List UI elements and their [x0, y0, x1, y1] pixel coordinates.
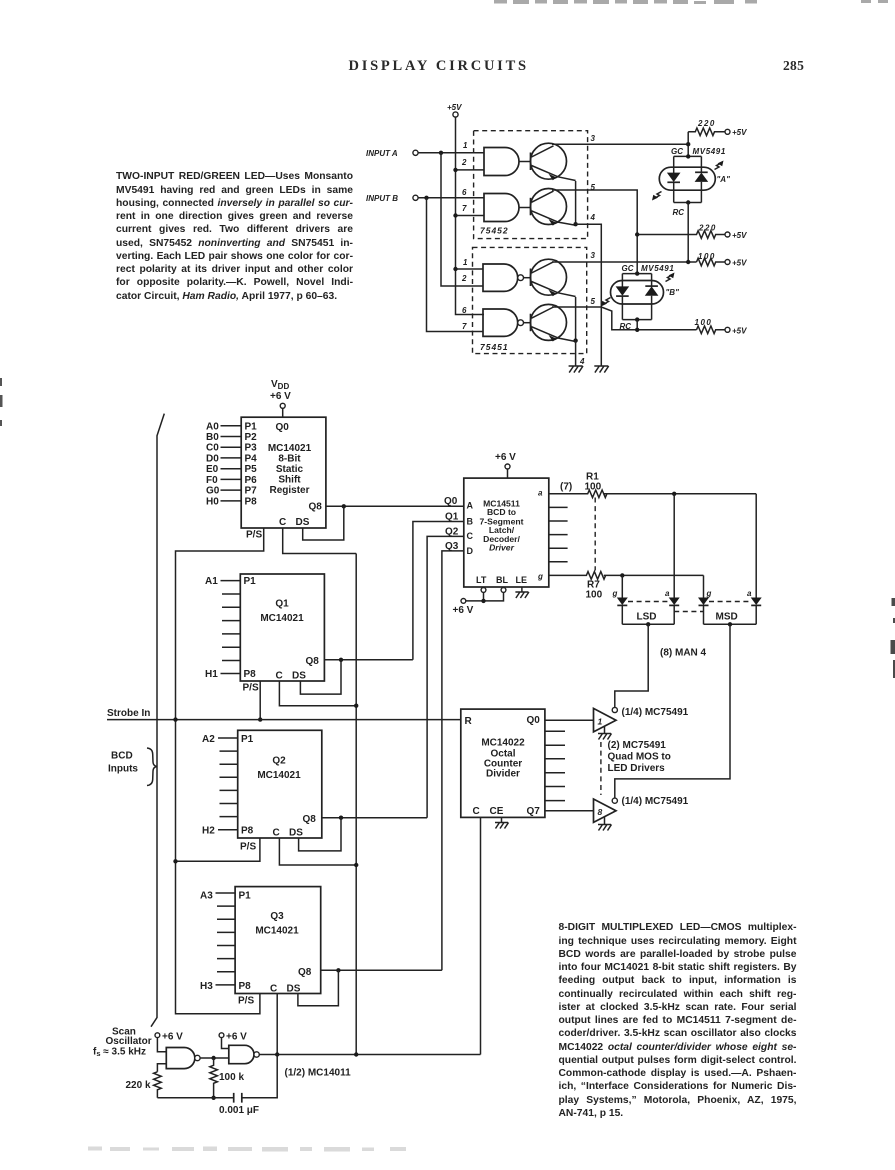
wire C of MC14022 down to oscillator	[480, 817, 482, 1054]
svg-text:P/S: P/S	[240, 842, 256, 853]
capacitor 0.001uF plates	[219, 1093, 259, 1116]
svg-text:RC: RC	[673, 208, 685, 217]
wire segment g to displays	[604, 574, 704, 576]
wire NAND1 out to NAND2	[200, 1058, 229, 1061]
svg-text:DS: DS	[289, 828, 303, 839]
junction g/LSD	[620, 573, 624, 577]
LSD common cathode	[622, 612, 674, 627]
wire C of Q1 to clock bus	[279, 681, 356, 706]
svg-text:LSD: LSD	[637, 612, 657, 623]
junction INPUT A	[439, 151, 443, 155]
transistor Q1	[531, 143, 576, 180]
ground 75451	[569, 366, 583, 373]
output stub f	[549, 561, 568, 563]
register Q1 MC14021	[240, 574, 324, 682]
junction Q8 feedback Q3	[336, 968, 340, 972]
svg-text:75452: 75452	[480, 226, 509, 236]
register Q0 MC14021	[241, 417, 326, 528]
wire P/S of Q2 to strobe bus	[176, 838, 260, 861]
resistor R7 100	[549, 572, 606, 601]
svg-text:MV5491: MV5491	[641, 264, 674, 273]
junction osc/C Q3	[275, 1052, 279, 1056]
svg-text:100: 100	[698, 252, 716, 261]
CE ground	[495, 817, 509, 828]
wire LED A RC down to 100 ohm line	[687, 203, 689, 263]
wire gate U2a output to Q3 base	[524, 277, 531, 279]
svg-text:C: C	[473, 806, 480, 817]
wire +5V rail down to gate inputs	[456, 117, 485, 314]
svg-text:GC: GC	[671, 147, 683, 156]
svg-text:C: C	[270, 984, 277, 995]
input stub 2 Q3	[217, 905, 235, 907]
svg-text:MSD: MSD	[716, 612, 738, 623]
wire Q7 to driver 8	[545, 810, 594, 812]
svg-text:F0: F0	[206, 475, 218, 486]
wire Q8 to DS feedback Q1	[300, 660, 341, 694]
NAND gate 2 MC14011	[229, 1045, 260, 1063]
svg-text:BL: BL	[496, 575, 508, 585]
input H2	[202, 826, 238, 837]
dashed link LSD-MSD	[674, 611, 703, 613]
svg-text:C: C	[279, 517, 286, 528]
svg-text:VDD: VDD	[271, 379, 289, 391]
LED segment diode g LSD	[612, 589, 628, 624]
svg-text:7: 7	[462, 204, 467, 213]
scan artifact right edge	[891, 598, 895, 678]
input stub 3 Q2	[220, 763, 238, 765]
driver buffer 8 MC75491	[594, 798, 618, 822]
junction RC/wire3	[686, 260, 690, 264]
input D0	[206, 453, 241, 464]
svg-text:Q0: Q0	[444, 496, 458, 507]
light arrow LED B lower	[603, 298, 611, 305]
MSD common cathode	[704, 612, 757, 627]
wire a down to MSD segment	[755, 494, 757, 598]
svg-text:(8) MAN 4: (8) MAN 4	[660, 648, 707, 659]
svg-text:Q0: Q0	[276, 422, 290, 433]
ground 75452	[594, 366, 608, 373]
LED pair MV5491 "A"	[659, 147, 730, 217]
input stub 6 Q1	[222, 646, 240, 648]
wire LSD cathode to driver 1	[615, 624, 648, 707]
label BCD Inputs	[108, 751, 138, 775]
svg-text:5: 5	[591, 183, 596, 192]
svg-text:DS: DS	[292, 671, 306, 682]
node INPUT A	[366, 149, 418, 158]
wire Q8 of Q1 right	[324, 659, 413, 661]
wire Q1 output up to MC14511 pin B	[413, 522, 464, 660]
NAND gate U2a	[483, 264, 523, 291]
svg-text:fs ≈ 3.5 kHz: fs ≈ 3.5 kHz	[93, 1047, 146, 1059]
wire VDD to register Q0	[282, 408, 284, 417]
svg-text:CE: CE	[490, 806, 504, 817]
svg-text:RC: RC	[620, 322, 632, 331]
svg-text:100: 100	[585, 482, 602, 493]
resistor 100k	[210, 1058, 245, 1098]
svg-text:H3: H3	[200, 981, 213, 992]
wire P/S of Q1 to strobe line	[259, 681, 261, 720]
input stub 3 Q3	[217, 918, 235, 920]
svg-text:LE: LE	[516, 575, 528, 585]
LT terminal circle	[481, 587, 486, 592]
svg-text:Q8: Q8	[303, 814, 317, 825]
wire 5 output of 75451 with jog to LED B RC	[552, 307, 697, 330]
svg-text:Register: Register	[269, 485, 309, 496]
strobe line	[107, 719, 461, 721]
arrowhead LED B upper	[669, 273, 675, 279]
light arrow LED A lower	[654, 192, 662, 199]
IC 75452 dashed outline	[474, 131, 588, 239]
svg-text:8: 8	[598, 807, 603, 817]
driver buffer 1 MC75491	[594, 707, 618, 732]
feedback line with capacitor	[157, 1055, 277, 1098]
+5V supply terminal	[447, 103, 462, 117]
svg-text:6: 6	[462, 188, 467, 197]
wire C of Q3 down to oscillator	[276, 994, 278, 1055]
wire +6V to NAND2 input	[222, 1038, 229, 1049]
scan oscillator +6V terminal 1	[155, 1032, 183, 1043]
input stub 7 Q1	[222, 660, 240, 662]
output stub c	[549, 520, 568, 522]
svg-text:Q7: Q7	[527, 806, 541, 817]
svg-text:INPUT B: INPUT B	[366, 194, 398, 203]
wire Q3 output up to MC14511 pin D	[442, 551, 464, 970]
wire +6V to MC14511	[507, 469, 509, 478]
junction Q8 feedback Q0	[342, 504, 346, 508]
svg-text:Divider: Divider	[486, 769, 520, 780]
svg-text:(1/4) MC75491: (1/4) MC75491	[622, 796, 689, 807]
junction 100k tap	[211, 1056, 215, 1060]
clock bus vertical	[355, 554, 357, 1055]
svg-text:C0: C0	[206, 443, 219, 454]
scan oscillator +6V terminal 2	[219, 1032, 247, 1043]
svg-text:1: 1	[463, 141, 468, 150]
junction emitters 75451	[573, 338, 577, 342]
svg-text:Shift: Shift	[278, 474, 301, 485]
register Q3 MC14021	[235, 887, 321, 995]
brace BCD inputs	[147, 748, 157, 786]
input B0	[206, 432, 241, 443]
svg-text:C: C	[273, 828, 280, 839]
output stub d	[549, 534, 568, 536]
wire Q8 of Q0 to MC14511 pin A	[326, 505, 464, 507]
dashed R2-R6 indicator	[594, 498, 596, 571]
svg-text:H1: H1	[205, 669, 218, 680]
wire C of Q0 to clock bus	[283, 528, 357, 554]
junction +5V/pin1 U2a	[453, 267, 457, 271]
light arrow LED B upper	[666, 275, 674, 282]
input stub 4 Q3	[217, 931, 235, 933]
junction +5V/pin7	[453, 213, 457, 217]
svg-text:2: 2	[461, 158, 467, 167]
svg-text:100 k: 100 k	[219, 1072, 244, 1083]
svg-text:LED Drivers: LED Drivers	[608, 763, 666, 774]
node INPUT B	[366, 194, 418, 203]
wire 4 of 75451 to ground	[575, 341, 577, 366]
input stub 4 Q2	[220, 776, 238, 778]
output stub b	[549, 506, 568, 508]
svg-text:C: C	[276, 671, 283, 682]
svg-text:BCD: BCD	[111, 751, 133, 762]
input stub 6 Q2	[220, 803, 238, 805]
svg-text:A: A	[467, 501, 474, 511]
svg-text:INPUT A: INPUT A	[366, 149, 398, 158]
junction C Q2/clock bus	[354, 863, 358, 867]
IC MC14022 counter	[461, 709, 545, 817]
svg-text:4: 4	[579, 357, 585, 366]
wire 3 output of 75452	[552, 143, 688, 145]
wire gate U1b output to Q2 base	[519, 207, 531, 209]
wire 4 of 75452 to ground	[576, 224, 602, 366]
LED segment diode a MSD	[747, 589, 762, 624]
svg-text:DS: DS	[296, 517, 310, 528]
wire 5 output of 75452 to LED B anode column	[552, 190, 637, 274]
svg-text:Oscillator: Oscillator	[106, 1036, 152, 1047]
svg-text:+6 V: +6 V	[453, 605, 474, 616]
dashed segment link LSD	[628, 601, 668, 603]
svg-text:(7): (7)	[560, 482, 572, 493]
input A3	[200, 891, 235, 902]
input stub 2 Q2	[220, 750, 238, 752]
input F0	[206, 475, 241, 486]
wire Q8 to DS feedback Q3	[298, 970, 339, 1005]
svg-text:P1: P1	[245, 421, 258, 432]
svg-text:4: 4	[590, 213, 596, 222]
svg-text:5: 5	[591, 297, 596, 306]
svg-text:1: 1	[463, 258, 468, 267]
wire INPUT B to pin7 of U2b	[427, 198, 484, 332]
svg-text:P8: P8	[239, 981, 252, 992]
wire gate U1a output to Q1 base	[519, 161, 531, 163]
svg-text:+5V: +5V	[732, 231, 747, 240]
label Scan Oscillator	[93, 1027, 152, 1059]
wire +6V to LT and BL	[466, 592, 504, 601]
input C0	[206, 443, 241, 454]
input A2	[202, 734, 238, 745]
wire Q2 output up to MC14511 pin C	[427, 536, 464, 817]
svg-text:Inputs: Inputs	[108, 764, 138, 775]
junction Q8 feedback Q2	[339, 816, 343, 820]
svg-text:MC14022: MC14022	[481, 738, 525, 749]
svg-text:6: 6	[462, 306, 467, 315]
svg-text:8-Bit: 8-Bit	[278, 453, 301, 464]
arrowhead LED A upper	[718, 161, 724, 167]
input A0	[206, 421, 241, 432]
counter stub Q1	[545, 730, 565, 732]
svg-text:(1/4) MC75491: (1/4) MC75491	[622, 707, 689, 718]
svg-text:P1: P1	[241, 734, 254, 745]
resistor 220k	[126, 1072, 162, 1098]
svg-text:MC14021: MC14021	[268, 443, 312, 454]
svg-text:MC14021: MC14021	[257, 770, 301, 781]
svg-text:a: a	[747, 589, 752, 598]
svg-text:75451: 75451	[480, 342, 509, 352]
wire a down to LSD segment	[673, 494, 675, 598]
junction Q8 feedback Q1	[339, 658, 343, 662]
svg-text:C: C	[467, 531, 474, 541]
wire +5V to pin7 gate U1b	[456, 215, 485, 217]
wire INPUT A to pin2 of U2a	[441, 153, 483, 286]
svg-text:Q2: Q2	[272, 756, 286, 767]
NAND gate U2b	[483, 309, 523, 336]
wire P/S of Q0 to strobe bus	[176, 528, 264, 1014]
wire Q8 of Q3 right	[321, 969, 442, 971]
junction 220/LED B GC column	[635, 232, 639, 236]
input G0	[206, 486, 241, 497]
input stub 3 Q1	[222, 606, 240, 608]
dashed segment link MSD	[709, 601, 750, 603]
wire Q8 to DS feedback Q2	[299, 818, 341, 851]
transistor Q4	[531, 304, 576, 341]
svg-text:A1: A1	[205, 576, 218, 587]
svg-text:P/S: P/S	[238, 996, 254, 1007]
junction P/S Q1/strobe	[258, 717, 262, 721]
counter stub Q5	[545, 786, 565, 788]
LE ground	[515, 587, 529, 598]
svg-text:+6 V: +6 V	[270, 391, 291, 402]
svg-text:(1/2) MC14011: (1/2) MC14011	[285, 1068, 352, 1079]
svg-text:1: 1	[598, 717, 603, 727]
wire INPUT B to pin6	[418, 197, 484, 199]
arrowhead LED A lower	[652, 195, 658, 201]
counter stub Q6	[545, 800, 565, 802]
svg-text:A2: A2	[202, 734, 215, 745]
header title	[349, 58, 529, 75]
wire 3 output of 75451 to 100 ohm and LED A RC	[552, 261, 697, 263]
input stub 5 Q1	[222, 633, 240, 635]
wire +5V to pin2 gate U1a	[456, 169, 485, 171]
wire NAND1 input 2 to 220k	[157, 1064, 166, 1072]
svg-text:100: 100	[695, 318, 713, 327]
svg-text:P6: P6	[245, 475, 258, 486]
input H1	[205, 669, 240, 680]
svg-text:+6 V: +6 V	[495, 452, 516, 463]
NAND gate 1 MC14011	[166, 1048, 200, 1069]
junction a/LSD	[672, 492, 676, 496]
svg-text:220: 220	[698, 224, 717, 233]
junction strobe/PS bus	[173, 717, 177, 721]
arrowhead LED B lower	[601, 301, 607, 307]
IC 75451 dashed outline	[473, 247, 587, 353]
resistor 220 (second, to LED B GC)	[637, 224, 747, 241]
paragraph: 8-digit multiplexed LED description	[559, 921, 797, 1120]
svg-text:Q2: Q2	[445, 527, 459, 538]
svg-text:7: 7	[462, 322, 467, 331]
svg-text:"B": "B"	[666, 288, 680, 297]
left continuation bus	[151, 414, 164, 1027]
wire C of Q2 to clock bus	[279, 838, 356, 865]
svg-text:100: 100	[586, 590, 603, 601]
input H0	[206, 496, 241, 507]
svg-text:B0: B0	[206, 432, 219, 443]
svg-text:H0: H0	[206, 496, 219, 507]
page number 285	[783, 58, 804, 74]
counter stub Q4	[545, 772, 565, 774]
svg-text:Quad MOS to: Quad MOS to	[608, 752, 671, 763]
transistor Q2	[531, 189, 576, 226]
wire Q8 of Q2 right	[322, 817, 427, 819]
paragraph: two-input red/green LED description	[116, 170, 353, 303]
svg-text:P8: P8	[245, 496, 258, 507]
svg-text:H2: H2	[202, 826, 215, 837]
LED segment diode g MSD	[698, 589, 712, 624]
dashed drivers indicator	[600, 742, 602, 795]
svg-text:MV5491: MV5491	[693, 147, 726, 156]
svg-text:A0: A0	[206, 421, 219, 432]
junction +5V/pin2	[453, 168, 457, 172]
svg-text:220: 220	[697, 119, 716, 128]
input stub 5 Q2	[220, 789, 238, 791]
svg-text:a: a	[665, 589, 670, 598]
svg-text:P3: P3	[245, 443, 258, 454]
junction C Q1/clock bus	[354, 704, 358, 708]
junction LED B RC/wire5	[635, 328, 639, 332]
svg-text:P/S: P/S	[243, 683, 259, 694]
input A1	[205, 576, 240, 587]
svg-text:Q8: Q8	[306, 656, 320, 667]
wire Q3 emitter down	[575, 297, 577, 341]
wire MSD cathode to driver 8	[615, 624, 730, 798]
svg-text:Q1: Q1	[445, 512, 459, 523]
svg-text:P/S: P/S	[246, 530, 262, 541]
light arrow LED A upper	[715, 163, 723, 170]
wire segment a to displays	[604, 493, 756, 495]
junction osc/clock bus	[354, 1052, 358, 1056]
LED segment diode a LSD	[665, 589, 680, 624]
svg-text:Static: Static	[276, 464, 304, 475]
counter stub Q3	[545, 758, 565, 760]
LED pair MV5491 "B"	[611, 264, 680, 331]
IC MC14511 decoder	[464, 478, 549, 587]
svg-text:GC: GC	[622, 264, 634, 273]
scan artifact bottom dashes	[88, 1147, 406, 1152]
junction LT wire	[481, 599, 485, 603]
transistor Q3	[531, 259, 576, 296]
svg-text:P1: P1	[239, 891, 252, 902]
input stub 6 Q3	[217, 958, 235, 960]
svg-text:Q1: Q1	[275, 599, 289, 610]
wire INPUT A to pin1	[418, 152, 484, 154]
svg-text:220 k: 220 k	[126, 1080, 151, 1091]
wire gate U2b output to Q4 base	[524, 322, 531, 324]
svg-text:D: D	[467, 546, 474, 556]
output stub e	[549, 547, 568, 549]
svg-text:P5: P5	[245, 464, 258, 475]
svg-text:MC14021: MC14021	[260, 613, 304, 624]
junction 100k/feedback	[211, 1096, 215, 1100]
wire g down to MSD segment	[703, 575, 705, 597]
+6V terminal for LT/BL	[453, 599, 474, 617]
input stub 2 Q1	[222, 593, 240, 595]
svg-text:B: B	[467, 517, 474, 527]
wire +5V to pin1 gate U2a	[456, 268, 484, 270]
svg-text:P4: P4	[245, 453, 258, 464]
svg-text:E0: E0	[206, 464, 219, 475]
svg-text:D0: D0	[206, 453, 219, 464]
wire Q1 emitter to Q2 emitter	[575, 181, 577, 224]
oscillator output line	[259, 1054, 480, 1056]
svg-text:R: R	[465, 716, 473, 727]
svg-text:Q8: Q8	[309, 502, 323, 513]
svg-text:P8: P8	[241, 826, 254, 837]
junction wire3/GC column	[686, 142, 690, 146]
scan artifact top dashes	[494, 0, 888, 4]
resistor R1 100	[549, 472, 607, 498]
svg-text:+6 V: +6 V	[162, 1032, 183, 1043]
counter stub Q2	[545, 744, 565, 746]
label (2) MC75491 block	[608, 740, 671, 774]
svg-text:MC14021: MC14021	[255, 926, 299, 937]
